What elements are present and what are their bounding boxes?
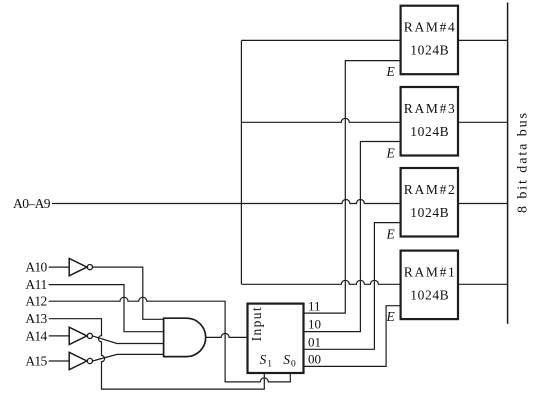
- svg-text:0: 0: [291, 360, 296, 370]
- svg-text:S: S: [283, 352, 290, 367]
- wire A11 to AND input 2: [49, 285, 164, 332]
- svg-text:10: 10: [308, 316, 321, 331]
- inverter A10: [69, 258, 87, 275]
- svg-text:11: 11: [308, 298, 321, 313]
- svg-text:1024B: 1024B: [410, 43, 448, 58]
- wire decoder output 11 to RAM#4 E: [304, 61, 401, 314]
- decoder box Input: [248, 304, 304, 373]
- svg-text:8 bit data bus: 8 bit data bus: [516, 113, 531, 213]
- and-gate 4-input: [164, 318, 206, 356]
- wire 8-bit data bus vertical: [507, 3, 509, 324]
- wire address branch to RAM#4: [241, 39, 400, 41]
- svg-text:S: S: [260, 352, 267, 367]
- wire A10 input: [49, 266, 69, 268]
- wire A13 to S1: [49, 319, 265, 389]
- wire AND output to decoder: [206, 333, 247, 337]
- svg-text:1024B: 1024B: [410, 205, 448, 220]
- RAM#3 box: [401, 87, 458, 156]
- svg-text:A11: A11: [25, 277, 47, 292]
- wire A14 input: [49, 335, 69, 337]
- wire RAM#1 to data bus: [458, 283, 508, 285]
- inverter A14: [69, 327, 87, 344]
- svg-text:1024B: 1024B: [410, 287, 448, 302]
- svg-text:RAM#2: RAM#2: [404, 182, 455, 197]
- wire decoder output 01 to RAM#2 E: [304, 223, 401, 350]
- svg-text:A13: A13: [25, 311, 47, 326]
- svg-text:A15: A15: [25, 354, 47, 369]
- svg-text:E: E: [386, 227, 396, 242]
- wire RAM#2 to data bus: [458, 203, 508, 205]
- svg-text:E: E: [386, 146, 396, 161]
- wire A15 inverted to AND input 4: [93, 354, 164, 361]
- wire decoder output 10 to RAM#3 E: [304, 142, 401, 332]
- wire RAM#3 to data bus: [458, 121, 508, 123]
- svg-text:A10: A10: [25, 260, 47, 275]
- wire address distribution vertical: [240, 40, 242, 284]
- RAM#2 box: [401, 168, 458, 237]
- svg-text:1024B: 1024B: [410, 124, 448, 139]
- RAM#4 box: [401, 6, 458, 75]
- svg-text:RAM#1: RAM#1: [404, 264, 455, 279]
- inverter A15: [69, 352, 87, 369]
- svg-text:A14: A14: [25, 328, 47, 343]
- svg-text:A12: A12: [25, 294, 47, 309]
- svg-text:RAM#3: RAM#3: [404, 101, 455, 116]
- svg-text:E: E: [386, 309, 396, 324]
- svg-text:RAM#4: RAM#4: [404, 20, 455, 35]
- svg-text:1: 1: [267, 360, 272, 370]
- wire address branch to RAM#1: [241, 280, 400, 284]
- wire A14 inverted to AND input 3: [93, 336, 164, 344]
- wire address branch to RAM#3: [241, 118, 400, 122]
- svg-text:01: 01: [308, 335, 321, 350]
- wire A15 input: [49, 360, 69, 362]
- svg-text:00: 00: [308, 352, 321, 367]
- wire A12 to S0: [49, 297, 291, 382]
- wire A10 inverted to AND input 1: [93, 267, 164, 319]
- wire RAM#4 to data bus: [458, 39, 508, 41]
- RAM#1 box: [401, 251, 458, 320]
- wire A0-A9 address line: [52, 200, 401, 204]
- svg-text:A0–A9: A0–A9: [13, 196, 51, 211]
- wire decoder output 00 to RAM#1 E: [304, 306, 401, 367]
- svg-text:E: E: [386, 64, 396, 79]
